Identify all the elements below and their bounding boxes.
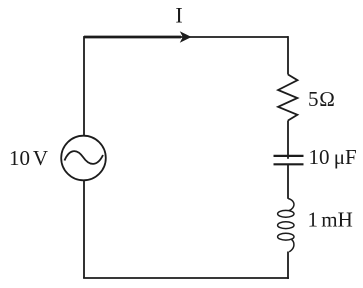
- capacitor C1 top plate: [274, 155, 304, 157]
- wire bottom: [83, 277, 289, 279]
- resistor R1 zigzag: [278, 75, 297, 121]
- svg-text:1 mH: 1 mH: [308, 208, 353, 232]
- voltage source V1 circle: [61, 136, 106, 181]
- svg-text:5Ω: 5Ω: [308, 87, 336, 111]
- wire left upper: [83, 36, 85, 136]
- wire right inductor-to-bottom: [287, 252, 289, 279]
- wire right upper (to resistor): [287, 36, 289, 74]
- inductor L1 bottom lead arc: [289, 240, 294, 252]
- voltage source sine wave: [65, 151, 104, 164]
- wire left lower: [83, 180, 85, 278]
- arrowhead of current arrow I: [180, 31, 192, 43]
- capacitor C1 bottom plate: [274, 163, 304, 165]
- wire right capacitor-to-inductor: [287, 165, 289, 199]
- inductor L1 loop 1: [278, 210, 294, 217]
- svg-text:I: I: [175, 3, 182, 28]
- wire top: [84, 36, 288, 38]
- inductor L1 loop 2: [278, 222, 294, 229]
- svg-text:10 V: 10 V: [9, 146, 48, 170]
- wire right resistor-to-capacitor: [287, 121, 289, 159]
- svg-text:10 μF: 10 μF: [309, 145, 357, 169]
- inductor L1 loop 3: [278, 233, 294, 240]
- wire arrow shaft (thicker current arrow segment): [84, 36, 181, 39]
- inductor L1 top lead arc: [288, 199, 294, 211]
